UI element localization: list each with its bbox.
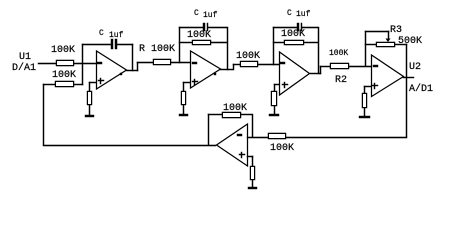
bottom input resistor 100K [268,133,286,139]
label 100K R2 [329,50,348,58]
op-amp stage2 triangle [191,51,221,88]
label 100K R1b [52,71,76,81]
bottom feedback resistor [222,112,241,118]
op-amp stage3 triangle [280,52,310,95]
junction dot stage2 [214,73,216,75]
wire stage3 plus input [274,84,279,85]
R3 right vertical down to bottom row [406,44,407,137]
capacitor C3 left wire [273,27,297,28]
ground bottom [248,187,257,189]
wire R2 to stage4 minus [349,66,371,67]
capacitor C3 right wire [302,27,318,28]
label 1uf stage3 [296,11,310,19]
bottom feedback wire left [208,114,222,115]
wire R to stage2 minus [171,62,190,63]
bottom op-amp feedback 100K label [223,104,247,114]
label 500K [398,37,422,47]
label 100K bottom input [270,144,294,154]
bottom op-amp plus wire [247,156,253,157]
op-amp U2 minus sign [373,65,378,67]
wire stage2 plus input [183,82,190,83]
feedback resistor stage2 [192,40,211,45]
label 1uf stage2 [203,12,217,20]
capacitor C1 right wire [117,44,133,45]
stage2 feedback right vertical [227,27,228,70]
wire to stage3 minus [258,64,279,65]
capacitor C2 right wire [208,27,227,28]
resistor R stage1-2 [153,59,171,65]
op-amp stage2 plus sign [192,81,198,82]
wire node vertical (minus node) [82,44,83,85]
wire fb res stage3 left [273,42,284,43]
wire feedback left vertical [43,84,44,145]
bottom output wire long [43,145,216,146]
wire fb res stage3 right [304,42,318,43]
label A/D1 [409,85,433,95]
resistor stage2 plus to gnd [181,91,186,105]
bottom op-amp minus input wire [247,137,268,138]
R3 wiper top wire [365,31,389,32]
R3 feedback left vertical [365,31,366,66]
resistor R1a [56,60,74,66]
op-amp U1 plus sign [98,80,104,81]
label C stage3 [287,10,292,18]
resistor R3 [376,42,395,47]
resistor R2 [330,63,349,69]
op-amp U1 minus sign [97,62,102,64]
capacitor C2 plates [203,23,205,31]
label C stage2 [194,10,199,18]
resistor U1 plus to gnd [87,91,92,105]
label R3 [390,26,402,36]
wire U2 plus input [364,86,371,87]
capacitor C2 left wire [179,27,203,28]
op-amp stage3 plus sign [282,84,288,85]
wire U1 output [126,70,138,71]
bottom feedback left vertical [208,114,209,145]
resistor stage3 plus to gnd [271,91,277,106]
wire C1 down to output [132,44,133,71]
bottom op-amp minus sign [237,134,242,136]
bottom feedback right vertical [252,114,253,137]
wire fb res stage2 right [211,42,227,43]
stage2 feedback left vertical [179,27,180,63]
label 100K stage3 feedback [281,30,305,40]
op-amp stage2 minus sign [192,62,197,64]
wire R3 right [395,44,407,45]
wire bottom resistor to U2 output column [286,137,407,138]
label C stage1 [99,30,104,38]
stage3 feedback right vertical [318,27,319,74]
label R2 [335,76,347,86]
potentiometer R3 wiper arrowhead [386,39,391,43]
capacitor C3 plates [297,23,299,31]
resistor stage2-3 [240,61,258,67]
bottom feedback wire right [241,114,252,115]
wire R3 left [365,44,376,45]
ground stage3 [269,114,279,116]
ground stage1 [85,115,94,117]
wire stage2 output [220,69,233,70]
wire R1b left [43,84,55,85]
resistor U2 plus to gnd [362,93,367,108]
wire U2 output stub [403,77,414,78]
capacitor C1 plates [111,39,113,49]
label R 100K [139,45,175,55]
wire U1 plus input [89,82,96,83]
wire input from D/A1 [38,63,56,64]
junction dot stage1 [120,73,122,75]
resistor bottom plus to gnd [250,166,255,180]
wire R1a to U1 minus [74,63,96,64]
resistor R1b [55,81,74,87]
op-amp U2 stage4 triangle [372,55,404,97]
label D/A1 [12,64,36,74]
wire fb res stage2 left [179,42,192,43]
ground stage2 [179,114,188,116]
op-amp U2 plus sign [372,85,378,86]
label 100K R1a [51,46,75,56]
feedback resistor stage3 [284,40,304,45]
ground stage4 [359,116,370,118]
op-amp bottom feedback stage triangle (points left) [217,124,248,166]
wire stage3 output [310,73,321,74]
label 1uf stage1 [109,32,123,40]
stage3 feedback left vertical [273,27,274,65]
label 100K stage2 feedback [187,31,211,41]
wire R1b right to node [74,84,83,85]
bottom op-amp plus sign [239,154,245,155]
label 100K stage2-3 [236,52,260,62]
op-amp stage3 minus sign [280,62,285,64]
label U1 [19,53,31,63]
capacitor C1 left wire [82,44,111,45]
op-amp U1A stage1 triangle [97,51,127,89]
label U2 [409,63,421,73]
